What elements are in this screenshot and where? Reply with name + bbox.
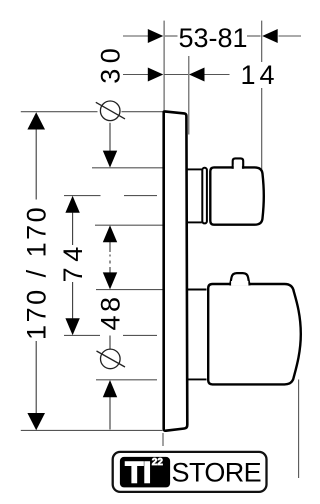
svg-text:74: 74	[58, 241, 88, 282]
svg-text:30: 30	[95, 43, 125, 84]
svg-text:22: 22	[152, 457, 164, 468]
svg-text:TI: TI	[125, 456, 151, 489]
svg-text:STORE: STORE	[172, 458, 262, 488]
svg-text:170 / 170: 170 / 170	[22, 205, 52, 340]
svg-text:14: 14	[240, 60, 278, 90]
svg-text:53-81: 53-81	[178, 23, 247, 53]
svg-text:48: 48	[95, 293, 125, 330]
